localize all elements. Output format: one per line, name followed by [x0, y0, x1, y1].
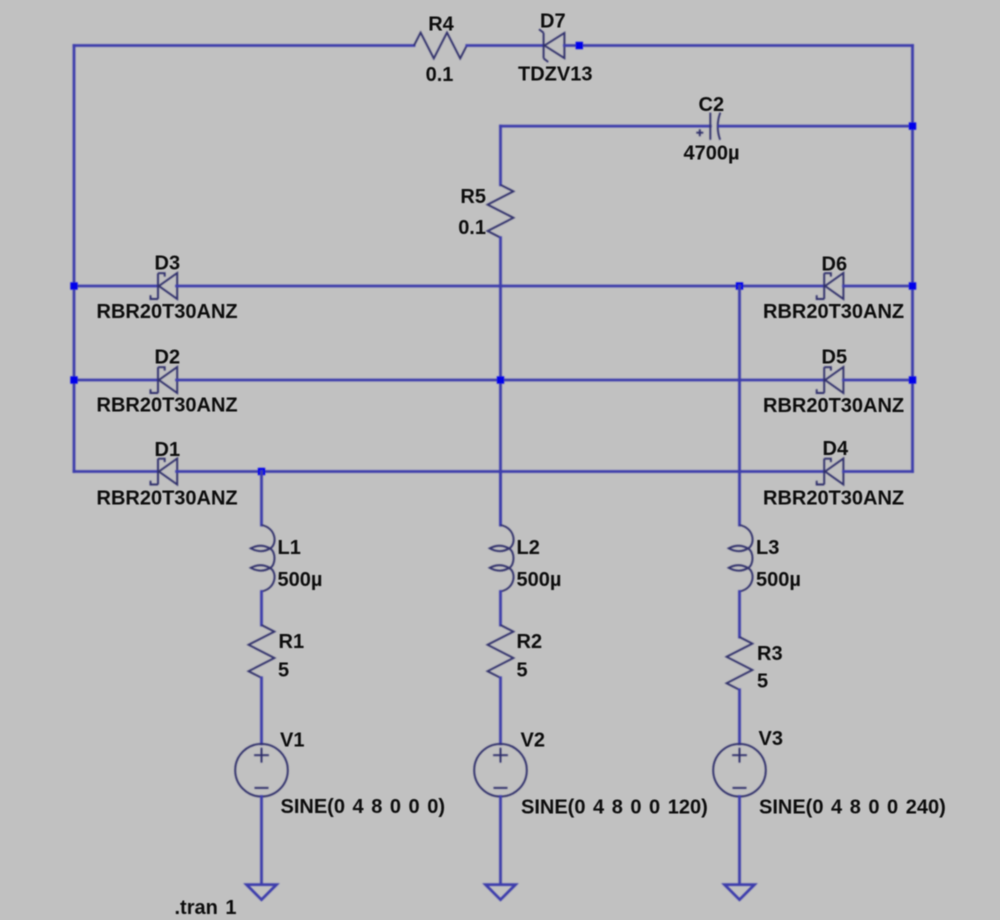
svg-text:5: 5: [757, 671, 768, 693]
wire D4 to right rail: [844, 470, 913, 473]
wire V2 to ground: [499, 797, 502, 885]
wire L3 to R3: [738, 592, 741, 638]
inductor L1: [251, 525, 275, 592]
wire D5 to right rail: [844, 379, 913, 382]
diode D7 (zener, pointing left): [539, 29, 564, 62]
svg-text:D4: D4: [823, 438, 849, 460]
voltage source V3: [713, 744, 766, 797]
svg-text:D6: D6: [822, 254, 848, 276]
svg-text:0.1: 0.1: [426, 64, 454, 86]
svg-text:D2: D2: [155, 347, 181, 369]
voltage source V2: [474, 744, 527, 797]
svg-text:L2: L2: [517, 537, 540, 559]
svg-text:5: 5: [278, 660, 289, 682]
wire R1 to V1: [260, 678, 263, 744]
wire node to L1: [260, 472, 263, 526]
wire R5 top to C2: [501, 125, 711, 128]
inductor L2: [490, 525, 514, 592]
svg-text:RBR20T30ANZ: RBR20T30ANZ: [97, 301, 238, 323]
svg-text:4700µ: 4700µ: [684, 143, 740, 165]
junction left rail / row D2: [70, 376, 77, 383]
svg-text:C2: C2: [699, 94, 725, 116]
diode D4 (schottky, pointing left): [817, 459, 844, 485]
junction right of D7: [576, 42, 583, 49]
svg-text:D3: D3: [155, 253, 181, 275]
diode D6 (schottky, pointing left): [817, 273, 844, 299]
svg-text:L3: L3: [756, 537, 779, 559]
svg-text:RBR20T30ANZ: RBR20T30ANZ: [763, 488, 904, 510]
svg-text:RBR20T30ANZ: RBR20T30ANZ: [97, 488, 238, 510]
svg-text:SINE(0 4 8 0 0 240): SINE(0 4 8 0 0 240): [759, 797, 946, 819]
svg-text:SINE(0 4 8 0 0 120): SINE(0 4 8 0 0 120): [521, 797, 708, 819]
wire R4 to D7: [467, 44, 544, 47]
svg-text:D5: D5: [822, 347, 848, 369]
junction right rail / row D5: [909, 376, 916, 383]
junction right rail / row D6: [909, 282, 916, 289]
inductor L3: [729, 525, 753, 592]
wire left rail: [73, 46, 76, 472]
svg-text:R1: R1: [279, 631, 305, 653]
svg-text:V3: V3: [759, 728, 783, 750]
svg-text:V2: V2: [521, 730, 545, 752]
capacitor C2 (polarized): [696, 113, 720, 140]
wire node to L3: [738, 286, 741, 525]
resistor R5: [488, 185, 514, 238]
svg-text:D7: D7: [540, 11, 566, 33]
svg-text:R4: R4: [428, 14, 454, 36]
diode D1 (schottky, pointing left): [151, 459, 178, 485]
wire left rail to D1: [74, 470, 158, 473]
junction right rail / C2 row: [909, 122, 916, 129]
wire right rail: [911, 46, 914, 472]
voltage source V1: [235, 744, 288, 797]
svg-text:TDZV13: TDZV13: [518, 64, 592, 86]
wire C2 row down to R5: [499, 126, 502, 185]
diode D5 (schottky, pointing left): [817, 367, 844, 393]
resistor R4: [414, 33, 467, 59]
wire node to L2: [499, 472, 502, 526]
wire R2 to V2: [499, 678, 502, 744]
junction phase C / row D6: [736, 282, 743, 289]
wire D6 to right rail: [844, 285, 913, 288]
svg-text:0.1: 0.1: [458, 217, 486, 239]
junction left rail / row D3: [70, 282, 77, 289]
svg-text:5: 5: [517, 660, 528, 682]
svg-text:D1: D1: [155, 439, 181, 461]
svg-text:R3: R3: [757, 643, 783, 665]
diode D2 (schottky, pointing left): [151, 367, 178, 393]
junction phase A / row D1: [258, 468, 265, 475]
ground below V2: [486, 885, 516, 900]
svg-text:V1: V1: [280, 730, 304, 752]
wire V3 to ground: [738, 797, 741, 885]
diode D3 (schottky, pointing left): [151, 273, 178, 299]
wire R3 to V3: [738, 690, 741, 744]
wire L1 to R1: [260, 592, 263, 626]
svg-text:500µ: 500µ: [517, 569, 562, 591]
svg-text:RBR20T30ANZ: RBR20T30ANZ: [97, 395, 238, 417]
wire left rail to D2: [74, 379, 158, 382]
svg-text:RBR20T30ANZ: RBR20T30ANZ: [763, 301, 904, 323]
wire L2 to R2: [499, 592, 502, 626]
svg-text:R5: R5: [460, 186, 486, 208]
resistor R3: [727, 637, 753, 690]
svg-text:SINE(0 4 8 0 0 0): SINE(0 4 8 0 0 0): [281, 796, 446, 818]
wire top-left to R4: [74, 44, 414, 47]
ground below V3: [725, 885, 755, 900]
wire D7 to top-right corner: [564, 44, 912, 47]
resistor R2: [488, 625, 514, 678]
junction phase B / row D5: [497, 376, 504, 383]
ground below V1: [247, 885, 277, 900]
wire C2 to right rail: [719, 125, 912, 128]
svg-text:RBR20T30ANZ: RBR20T30ANZ: [763, 395, 904, 417]
wire D3 to D6: [177, 285, 825, 288]
svg-text:500µ: 500µ: [756, 569, 801, 591]
wire V1 to ground: [260, 797, 263, 885]
svg-text:500µ: 500µ: [278, 569, 323, 591]
wire D1 to D4: [177, 470, 825, 473]
svg-text:L1: L1: [278, 537, 301, 559]
resistor R1: [249, 625, 275, 678]
wire R5 to L2: [499, 238, 502, 525]
wire left rail to D3: [74, 285, 158, 288]
svg-text:R2: R2: [517, 631, 543, 653]
wire D2 to D5: [177, 379, 825, 382]
svg-text:.tran 1: .tran 1: [175, 897, 237, 919]
